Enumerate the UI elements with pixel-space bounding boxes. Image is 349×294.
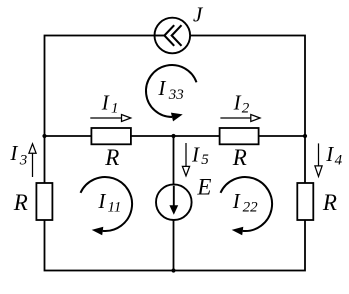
- svg-text:R: R: [104, 145, 119, 170]
- wire middle horizontal: [45, 135, 306, 137]
- current arrow I3: [29, 144, 36, 177]
- svg-text:I: I: [97, 189, 106, 213]
- resistor R (left branch): [36, 183, 52, 220]
- svg-text:R: R: [322, 190, 337, 215]
- svg-text:33: 33: [168, 87, 184, 103]
- svg-text:4: 4: [335, 152, 343, 168]
- svg-text:R: R: [13, 190, 28, 215]
- svg-text:I: I: [325, 142, 334, 166]
- svg-text:2: 2: [242, 101, 250, 117]
- resistor R (middle-left): [91, 128, 130, 144]
- current arrow I1: [90, 115, 130, 122]
- svg-text:11: 11: [108, 200, 122, 216]
- node A (left middle junction): [42, 134, 46, 138]
- svg-text:I: I: [157, 76, 166, 100]
- svg-text:I: I: [232, 189, 241, 213]
- svg-text:I: I: [233, 91, 242, 115]
- loop arrow I22: [221, 177, 273, 235]
- resistor R (middle-right): [220, 128, 259, 144]
- voltage source E: [156, 184, 192, 220]
- svg-text:I: I: [191, 142, 200, 166]
- current source J: [154, 18, 190, 54]
- node B (center middle junction): [171, 134, 175, 138]
- svg-text:I: I: [9, 141, 18, 165]
- current arrow I5: [182, 143, 189, 176]
- node D (bottom middle junction): [171, 268, 175, 272]
- svg-text:22: 22: [243, 200, 259, 216]
- resistor R (right branch): [297, 183, 313, 220]
- wire middle vertical: [173, 136, 175, 271]
- svg-text:1: 1: [111, 101, 119, 117]
- wire outer loop rectangle: [45, 36, 306, 271]
- svg-text:3: 3: [19, 153, 28, 169]
- node C (right middle junction): [303, 134, 307, 138]
- svg-text:R: R: [232, 145, 247, 170]
- svg-text:I: I: [101, 91, 110, 115]
- current arrow I4: [315, 143, 322, 176]
- svg-text:J: J: [193, 3, 204, 27]
- current arrow I2: [220, 115, 260, 122]
- loop arrow I33: [146, 65, 197, 121]
- loop arrow I11: [81, 177, 133, 235]
- svg-text:E: E: [196, 174, 211, 199]
- svg-text:5: 5: [201, 152, 209, 168]
